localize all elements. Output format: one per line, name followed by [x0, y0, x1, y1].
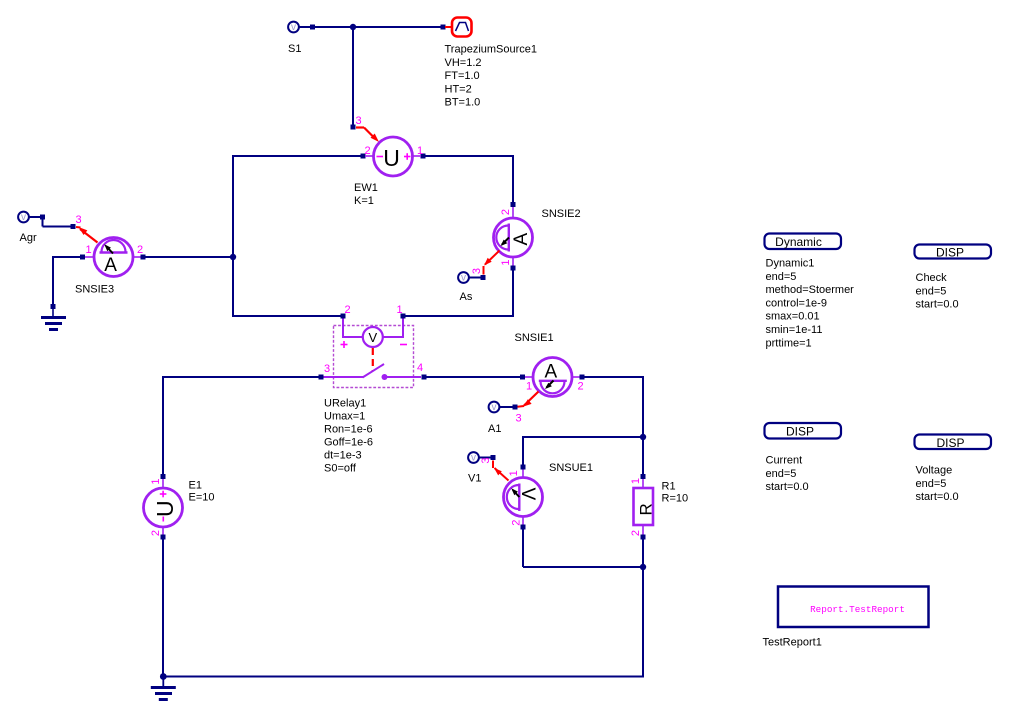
simulation block Dynamic1	[765, 234, 842, 250]
pin square SNSIE3 pin 2	[141, 255, 146, 260]
wire SNSIE1 down to R1	[642, 376, 644, 437]
svg-text:3: 3	[76, 214, 82, 226]
svg-text:SNSIE2: SNSIE2	[542, 208, 581, 220]
svg-text:v: v	[21, 212, 26, 223]
svg-text:v: v	[471, 453, 476, 464]
junction top node	[350, 24, 356, 30]
svg-text:VH=1.2: VH=1.2	[445, 57, 482, 69]
value label R1	[662, 481, 689, 505]
svg-text:start=0.0: start=0.0	[916, 491, 959, 503]
pin square SNSUE1 pin 1	[521, 465, 526, 470]
pin number 1 E1	[150, 478, 162, 484]
svg-text:BT=1.0: BT=1.0	[445, 97, 481, 109]
svg-text:SNSIE3: SNSIE3	[75, 284, 114, 296]
svg-text:2: 2	[630, 530, 642, 536]
wire As to pin square	[469, 277, 481, 279]
signal arrow SNSUE1 to V1	[493, 461, 509, 481]
pin square V1	[491, 455, 496, 460]
pin square SNSIE1 pin 2	[580, 375, 585, 380]
resistor R1	[634, 479, 656, 535]
svg-text:2: 2	[510, 520, 522, 526]
svg-text:Dynamic1: Dynamic1	[766, 258, 815, 270]
wire left to relay pin 2	[233, 315, 341, 317]
pin square SNSIE2 pin 2	[511, 202, 516, 207]
svg-text:dt=1e-3: dt=1e-3	[324, 450, 362, 462]
terminal As	[458, 272, 469, 283]
ground bottom	[151, 677, 176, 702]
svg-text:v: v	[461, 273, 466, 284]
pin number 1 SNSUE1	[508, 470, 520, 476]
svg-text:E1: E1	[189, 480, 202, 492]
svg-text:HT=2: HT=2	[445, 83, 472, 95]
wire SNSIE1 pin 2 to R1 column	[585, 376, 644, 378]
pin square S1	[310, 25, 315, 30]
svg-text:1: 1	[508, 470, 520, 476]
relay control dashed link	[372, 348, 374, 371]
wire R1 node to SNSUE1 branch	[523, 436, 643, 438]
value label Current	[766, 455, 809, 494]
svg-text:K=1: K=1	[354, 195, 374, 207]
display block Voltage	[915, 435, 992, 451]
svg-text:DISP: DISP	[936, 436, 964, 450]
junction R1 top node	[640, 434, 646, 440]
svg-text:E=10: E=10	[189, 492, 215, 504]
wire junction down to EW1 pin 3	[352, 27, 354, 125]
display block Check	[915, 245, 992, 260]
wire relay pin 4 to SNSIE1 pin 1	[426, 376, 520, 378]
svg-text:Report.TestReport: Report.TestReport	[810, 604, 905, 615]
wire relay pin 1 to right node	[406, 315, 514, 317]
svg-text:Umax=1: Umax=1	[324, 411, 365, 423]
pin number 1 R1	[630, 478, 642, 484]
signal arrow into EW1	[356, 128, 379, 143]
pin square A1	[513, 405, 518, 410]
wire A1 to pin square	[499, 406, 513, 408]
svg-text:end=5: end=5	[916, 478, 947, 490]
junction R1 bottom node	[640, 564, 646, 570]
svg-text:control=1e-9: control=1e-9	[766, 297, 827, 309]
value label URelay1	[324, 398, 373, 475]
svg-text:Voltage: Voltage	[916, 465, 953, 477]
value label Voltage	[916, 465, 959, 504]
pin square SNSIE1 pin 1	[520, 375, 525, 380]
svg-text:method=Stoermer: method=Stoermer	[766, 284, 855, 296]
svg-text:3: 3	[480, 457, 492, 463]
wire S1 to TrapeziumSource1	[298, 26, 441, 28]
wire bottom branch to R1 node	[523, 566, 643, 568]
wire EW1 pin 1 to right node	[425, 155, 513, 157]
svg-text:A: A	[104, 255, 117, 276]
svg-text:R: R	[636, 503, 655, 515]
ammeter SNSIE3	[85, 238, 141, 277]
svg-text:DISP: DISP	[936, 246, 964, 260]
svg-text:Goff=1e-6: Goff=1e-6	[324, 437, 373, 449]
svg-text:V1: V1	[468, 473, 481, 485]
display block Current	[765, 423, 842, 439]
wire E1 pin 2 down to bottom	[162, 539, 164, 677]
svg-text:2: 2	[500, 209, 512, 215]
wire SNSIE2 pin 1 down to relay row	[512, 271, 514, 318]
voltmeter SNSUE1	[504, 470, 543, 525]
wire left node to EW1 pin 2	[233, 155, 361, 157]
svg-text:R=10: R=10	[662, 493, 689, 505]
svg-text:V: V	[368, 330, 377, 345]
pin square ground left	[51, 304, 56, 309]
svg-text:smin=1e-11: smin=1e-11	[766, 324, 823, 336]
svg-text:FT=1.0: FT=1.0	[445, 70, 480, 82]
svg-text:1: 1	[86, 244, 92, 256]
pin square E1 pin 1	[161, 474, 166, 479]
polarity minus URelay1	[400, 344, 407, 346]
svg-text:2: 2	[578, 381, 584, 393]
svg-text:4: 4	[417, 362, 423, 374]
ammeter SNSIE1	[525, 358, 580, 397]
pin square E1 pin 2	[161, 535, 166, 540]
voltage source E1	[144, 479, 183, 535]
svg-text:A1: A1	[488, 423, 501, 435]
pin square EW1 pin 3	[351, 125, 356, 130]
svg-text:Dynamic: Dynamic	[775, 235, 822, 249]
wire down to SNSUE1 pin 1	[522, 436, 524, 465]
svg-text:TestReport1: TestReport1	[763, 637, 822, 649]
svg-text:S0=off: S0=off	[324, 463, 357, 475]
svg-text:U: U	[383, 145, 400, 171]
svg-text:S1: S1	[288, 43, 301, 55]
wire SNSUE1 pin 2 down to bottom branch	[522, 529, 524, 567]
wire R1 pin 2 to bottom node	[642, 539, 644, 567]
pin number 2 SNSUE1	[510, 520, 522, 526]
pin square R1 pin 2	[641, 535, 646, 540]
svg-text:1: 1	[397, 304, 403, 316]
svg-text:smax=0.01: smax=0.01	[766, 311, 820, 323]
pin square URelay1 pin 2	[341, 314, 346, 319]
svg-text:2: 2	[137, 244, 143, 256]
wire red stub to TrapeziumSource1	[445, 26, 453, 28]
report block TestReport1	[778, 587, 929, 628]
pin square SNSUE1 pin 2	[521, 525, 526, 530]
junction left node	[230, 254, 236, 260]
svg-text:SNSUE1: SNSUE1	[549, 462, 593, 474]
svg-text:As: As	[460, 291, 473, 303]
svg-text:A: A	[545, 362, 558, 383]
wire node to R1 pin 1	[642, 437, 644, 475]
svg-text:1: 1	[500, 259, 512, 265]
pin square R1 pin 1	[641, 474, 646, 479]
pin square URelay1 pin 1	[401, 314, 406, 319]
terminal Agr	[18, 212, 29, 223]
relay URelay1 dashed boundary	[334, 326, 414, 388]
pin number 3 SNSUE1	[480, 457, 492, 463]
terminal A1	[489, 402, 500, 413]
svg-text:Check: Check	[916, 272, 948, 284]
pin square TrapeziumSource1	[441, 25, 446, 30]
svg-text:TrapeziumSource1: TrapeziumSource1	[445, 44, 538, 56]
terminal S1	[288, 22, 299, 33]
value label E1	[189, 480, 215, 504]
pin square SNSIE3 pin 3	[71, 224, 76, 229]
svg-text:3: 3	[516, 413, 522, 425]
op-amp EW1 controlled voltage source	[365, 137, 421, 176]
polarity plus URelay1	[341, 341, 348, 348]
svg-text:1: 1	[526, 381, 532, 393]
source TrapeziumSource1	[452, 18, 472, 37]
svg-text:3: 3	[356, 115, 362, 127]
svg-text:1: 1	[150, 478, 162, 484]
wire ground to SNSIE3 pin 1	[53, 256, 80, 258]
svg-text:A: A	[511, 233, 532, 246]
wire SNSIE3 pin 1 down to ground	[52, 256, 54, 305]
svg-text:start=0.0: start=0.0	[916, 299, 959, 311]
signal arrow SNSIE3 to pin 3	[76, 227, 98, 243]
svg-text:2: 2	[345, 304, 351, 316]
value label Check	[916, 272, 959, 311]
svg-text:Current: Current	[766, 455, 803, 467]
wire E1 row to relay pin 3	[163, 376, 319, 378]
svg-text:URelay1: URelay1	[324, 398, 366, 410]
pin square URelay1 pin 3	[319, 375, 324, 380]
svg-text:3: 3	[324, 363, 330, 375]
pin square EW1 pin 1	[421, 154, 426, 159]
wire left vertical	[232, 155, 234, 317]
value label Dynamic1	[766, 258, 855, 350]
svg-text:end=5: end=5	[766, 271, 797, 283]
value label EW1	[354, 182, 378, 207]
svg-text:prttime=1: prttime=1	[766, 337, 812, 349]
svg-text:U: U	[152, 500, 178, 517]
pin number 2 SNSIE2	[500, 209, 512, 215]
terminal V1	[468, 452, 479, 463]
ground left	[41, 309, 66, 331]
pin number 1 SNSIE2	[500, 259, 512, 265]
switch URelay1	[323, 364, 421, 380]
svg-text:v: v	[291, 22, 296, 33]
signal arrow SNSIE1 to A1	[518, 392, 539, 407]
wire relay row down to E1 pin 1	[162, 376, 164, 475]
pin square Agr	[40, 215, 45, 220]
pin square As	[481, 275, 486, 280]
svg-text:R1: R1	[662, 481, 676, 493]
pin square SNSIE3 pin 1	[80, 255, 85, 260]
wire bottom node down	[642, 567, 644, 678]
svg-text:DISP: DISP	[786, 425, 814, 439]
svg-text:EW1: EW1	[354, 182, 378, 194]
pin number 3 SNSIE2	[471, 268, 483, 274]
svg-text:Agr: Agr	[20, 232, 37, 244]
pin number 2 R1	[630, 530, 642, 536]
junction bottom ground node	[160, 673, 167, 680]
svg-text:SNSIE1: SNSIE1	[515, 332, 554, 344]
wire V1 to pin square	[479, 457, 491, 459]
svg-text:V: V	[517, 487, 538, 500]
voltmeter coil URelay1	[363, 327, 383, 347]
svg-text:v: v	[492, 402, 497, 413]
ammeter SNSIE2	[494, 207, 533, 266]
svg-text:3: 3	[471, 268, 483, 274]
svg-text:start=0.0: start=0.0	[766, 481, 809, 493]
pin square EW1 pin 2	[361, 154, 366, 159]
wire bottom rail	[163, 676, 643, 678]
relay URelay1 coil wires	[343, 319, 403, 338]
pin square URelay1 pin 4	[422, 375, 427, 380]
value label TrapeziumSource1	[445, 44, 538, 109]
pin number 2 E1	[150, 530, 162, 536]
svg-text:1: 1	[630, 478, 642, 484]
wire Agr to SNSIE3 pin 3	[29, 216, 72, 227]
pin square SNSIE2 pin 1	[511, 266, 516, 271]
wire EW1 right node down to SNSIE2 pin 2	[512, 155, 514, 203]
svg-text:end=5: end=5	[766, 468, 797, 480]
svg-text:2: 2	[150, 530, 162, 536]
svg-text:Ron=1e-6: Ron=1e-6	[324, 424, 373, 436]
signal arrow SNSIE2 to As	[484, 251, 500, 275]
wire SNSIE3 pin 2 to left node	[146, 256, 234, 258]
svg-text:end=5: end=5	[916, 285, 947, 297]
